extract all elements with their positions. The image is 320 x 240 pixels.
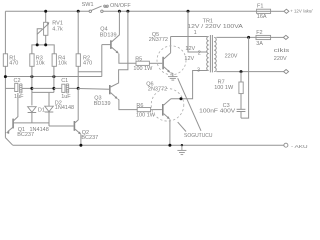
primary top lead (tap 1) <box>171 36 208 38</box>
wire left vertical lower <box>4 66 6 137</box>
svg-text:3: 3 <box>197 67 200 73</box>
transistor Q5 <box>149 32 173 76</box>
svg-text:470: 470 <box>9 61 18 67</box>
ground bottom <box>177 145 186 154</box>
svg-text:12V: 12V <box>184 56 194 62</box>
node ground stub <box>181 144 183 146</box>
node Q2 emitter <box>79 144 82 147</box>
wire top rail left <box>5 10 89 12</box>
svg-text:1N4148: 1N4148 <box>55 105 74 111</box>
wire F2 to terminal <box>271 36 284 38</box>
svg-text:F2: F2 <box>256 30 262 36</box>
svg-text:1N4148: 1N4148 <box>30 127 49 133</box>
svg-text:3A: 3A <box>256 41 263 47</box>
center tap feed (tap 2) <box>188 11 208 52</box>
svg-text:100 1W: 100 1W <box>214 85 234 91</box>
svg-text:BD139: BD139 <box>94 101 111 107</box>
node Q3 collector feed <box>126 10 129 13</box>
svg-text:100 1W: 100 1W <box>133 66 153 72</box>
fuse F2 <box>256 30 271 47</box>
node R2 top <box>77 10 80 13</box>
svg-text:16A: 16A <box>257 14 267 20</box>
terminal output top <box>283 35 288 39</box>
transistor Q2 <box>49 88 98 145</box>
wire node to Q3 base <box>78 88 109 91</box>
resistor R7 <box>214 72 243 94</box>
svg-text:BC237: BC237 <box>17 132 34 138</box>
wire link to C1 <box>32 87 54 89</box>
svg-text:SW1: SW1 <box>82 2 94 8</box>
svg-text:12V: 12V <box>185 46 195 52</box>
node C1 left <box>52 87 55 90</box>
svg-text:1uF: 1uF <box>61 94 71 100</box>
wire R3 bottom to D1 <box>31 66 33 105</box>
wire F1 to terminal <box>271 10 284 12</box>
svg-text:2N3772: 2N3772 <box>149 37 168 43</box>
ground Q5 emitter <box>168 77 178 81</box>
capacitor C1 <box>54 78 78 100</box>
wire secondary top <box>216 36 256 38</box>
fuse F1 <box>257 4 271 21</box>
diode D2 <box>45 92 74 126</box>
wire left vertical <box>4 11 6 54</box>
node wiper joins bus <box>36 43 39 46</box>
node rail R4 <box>52 75 55 78</box>
wire bias bus y45 <box>32 45 54 54</box>
transformer TR1 <box>171 11 244 73</box>
secondary winding <box>214 37 216 71</box>
node C2 to D1 column <box>30 87 33 90</box>
capacitor C3 <box>199 94 245 119</box>
svg-text:470: 470 <box>83 61 92 67</box>
svg-text:12V / 220V 100VA: 12V / 220V 100VA <box>187 24 243 30</box>
terminal +12V battery <box>284 8 313 13</box>
node on collector wire <box>180 97 183 100</box>
heatsink outline Q5 <box>157 46 186 75</box>
wire snubber return <box>241 37 249 118</box>
note heatsink label <box>178 78 213 139</box>
node rail R3 <box>30 75 33 78</box>
heatsink outline Q6 <box>151 89 184 122</box>
wire Q3 collector feed from rail <box>111 11 128 87</box>
primary winding <box>207 37 209 71</box>
switch SW1 <box>82 2 132 12</box>
svg-text:2: 2 <box>198 50 201 56</box>
svg-text:RV1: RV1 <box>52 20 63 26</box>
terminal battery negative <box>284 143 309 149</box>
svg-text:cikis: cikis <box>274 48 290 54</box>
terminal output bottom <box>284 70 289 74</box>
resistor R1 <box>3 54 18 67</box>
svg-text:R5: R5 <box>135 56 142 62</box>
svg-text:10k: 10k <box>58 61 67 67</box>
node Q6 emitter <box>168 144 171 147</box>
node rail R1 <box>4 75 7 78</box>
node RV1 bottom joins bus <box>44 43 47 46</box>
potentiometer RV1 <box>37 11 63 45</box>
wire base rail y76 <box>5 76 101 78</box>
svg-text:1uF: 1uF <box>14 94 24 100</box>
wire secondary bottom <box>216 71 283 73</box>
svg-text:ON/OFF: ON/OFF <box>110 3 131 9</box>
wire Q1 base bus <box>14 122 50 124</box>
node snubber bottom R7 <box>240 70 243 73</box>
wire bottom left chamfer <box>5 138 12 146</box>
wire R4 bottom to junction <box>53 66 55 92</box>
resistor R6 <box>136 103 162 119</box>
transistor Q6 <box>146 81 171 145</box>
wire R2 bottom to node <box>77 66 79 88</box>
resistor R5 <box>133 56 162 72</box>
svg-text:C2: C2 <box>14 78 21 84</box>
svg-text:- AKU: - AKU <box>291 144 308 149</box>
svg-text:F1: F1 <box>257 4 263 10</box>
transistor Q3 <box>94 85 138 110</box>
node snubber top <box>247 36 250 39</box>
node R2/C1/Q2 collector/Q3 base <box>77 87 80 90</box>
capacitor C2 <box>5 78 32 100</box>
svg-text:R6: R6 <box>136 103 143 109</box>
resistor R2 <box>76 11 92 66</box>
wire staple between diode tops <box>32 91 54 93</box>
svg-text:BC237: BC237 <box>81 135 98 141</box>
wire bottom rail <box>13 144 284 146</box>
transistor Q4 <box>100 11 136 63</box>
svg-text:10k: 10k <box>36 61 45 67</box>
svg-text:BD139: BD139 <box>100 32 117 38</box>
wire top rail right <box>103 10 257 12</box>
wire Q6 collector to tap3 <box>171 71 208 99</box>
svg-text:SOGUTUCU: SOGUTUCU <box>184 133 213 139</box>
svg-text:220V: 220V <box>274 56 287 62</box>
diode D1 <box>28 107 45 123</box>
svg-text:1: 1 <box>194 30 197 36</box>
node Q4 collector <box>118 10 121 13</box>
node transformer center tap feed <box>187 10 190 13</box>
svg-text:2N3772: 2N3772 <box>148 86 167 92</box>
svg-text:C1: C1 <box>61 78 68 84</box>
resistor R4 <box>52 54 67 67</box>
wire Q4 base feed <box>78 45 110 77</box>
core <box>209 35 211 72</box>
svg-text:100 1W: 100 1W <box>136 112 156 118</box>
svg-text:+ 12V /aku/: + 12V /aku/ <box>290 8 313 13</box>
transistor Q1 <box>5 93 48 138</box>
node RV1 top <box>44 10 47 13</box>
resistor R3 <box>30 54 45 67</box>
svg-text:4.7k: 4.7k <box>52 27 63 33</box>
svg-text:100nF 400V: 100nF 400V <box>199 108 235 114</box>
svg-text:220V: 220V <box>225 54 238 60</box>
svg-text:D1: D1 <box>38 108 45 114</box>
